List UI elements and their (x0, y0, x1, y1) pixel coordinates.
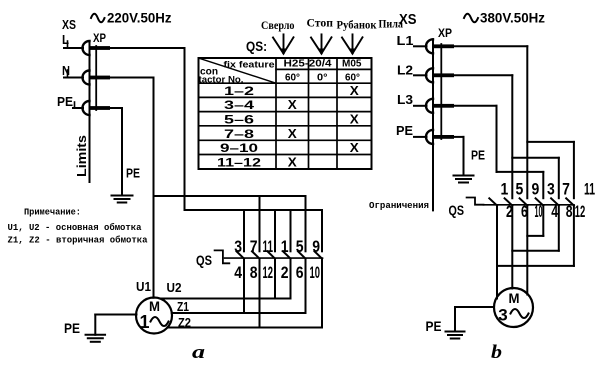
svg-text:M05: M05 (342, 58, 362, 70)
installation boundary line (Limits) (89, 41, 91, 182)
svg-text:X: X (288, 155, 298, 169)
svg-text:QS:: QS: (246, 38, 267, 54)
table header split line (276, 68, 372, 70)
plug XP pin L3 (diagram b) (433, 104, 454, 108)
wire L2 to socket (414, 74, 427, 76)
svg-text:9–10: 9–10 (220, 141, 258, 155)
contact bottom wire pin 2 (496, 206, 498, 299)
contact 1-2 top wire (pin 1) (290, 210, 292, 251)
wire L3 from plug (454, 105, 497, 107)
svg-text:8: 8 (566, 202, 573, 221)
svg-text:1: 1 (501, 179, 509, 198)
installation boundary line (Ogranicheniya) (432, 39, 434, 210)
wire L1 to socket (414, 45, 427, 47)
wire L1 drop to contact 5 (526, 46, 528, 198)
wire PE to socket (414, 136, 427, 138)
svg-text:1: 1 (281, 237, 289, 256)
contact blade (pair 2) diagram b (489, 198, 497, 205)
ground (motor M2 PE) (446, 332, 465, 339)
socket XS contact L3 (diagram b) (426, 99, 433, 113)
svg-text:QS: QS (449, 203, 465, 218)
svg-text:U1: U1 (136, 279, 151, 294)
wire contact 9 top drop (542, 172, 544, 198)
svg-text:3–4: 3–4 (224, 98, 254, 112)
contact 5-6 blade (298, 251, 306, 258)
contact bottom wire pin 4 (542, 206, 544, 236)
contact 11-12 top wire (pin 11) (274, 210, 276, 251)
svg-text:3: 3 (498, 306, 507, 325)
socket XS contact L2 (diagram b) (426, 68, 433, 82)
wire L2 branch to contact 3 (512, 157, 559, 159)
svg-text:PE: PE (57, 94, 73, 109)
svg-text:Z2: Z2 (178, 315, 191, 330)
svg-text:tactor No.: tactor No. (199, 75, 244, 85)
wire PE vertical to ground (diagram b) (463, 137, 465, 176)
wire N from plug to drop (110, 77, 154, 79)
contact bottom wire pin 10 (526, 206, 528, 295)
wire L3 branch to contact 9 (497, 171, 544, 173)
wire bridge contacts 6-8 (512, 250, 559, 252)
wire motor M2 PE (455, 306, 494, 308)
socket XS contact L (83, 41, 90, 55)
svg-text:X: X (288, 127, 298, 141)
wire L2 drop to contact 1 (511, 75, 513, 198)
svg-text:1–2: 1–2 (224, 84, 254, 98)
svg-text:Z1: Z1 (177, 299, 189, 314)
wire motor M1 PE (95, 314, 136, 316)
contact 3-4 bottom wire (pin 4) (243, 259, 245, 313)
contact 1-2 bottom wire (pin 2) (290, 259, 292, 299)
svg-text:XS: XS (62, 17, 76, 32)
svg-text:PE: PE (64, 320, 80, 336)
svg-text:Сверло: Сверло (261, 18, 295, 32)
svg-text:11: 11 (263, 237, 274, 256)
contact blade (pair 10) diagram b (520, 198, 528, 205)
wire Z2 (motor to contacts 8,10) (167, 327, 322, 329)
wire N to socket (64, 77, 83, 79)
contact 11-12 blade (268, 251, 276, 258)
wire L label tick (67, 41, 69, 48)
contact 9-10 blade (315, 251, 323, 258)
QS position arrow at x=352.5 (342, 34, 363, 55)
contact 3-4 top wire (pin 3) (243, 210, 245, 251)
svg-text:U2: U2 (167, 280, 182, 295)
wire N label tick (67, 70, 69, 78)
switch QS linkage bar (225, 257, 323, 259)
plug XP pin L2 (diagram b) (433, 73, 454, 77)
wire PE label tick (74, 102, 76, 108)
contactor table frame (199, 58, 372, 169)
svg-text:3: 3 (234, 237, 242, 256)
switch QS lever (diagram b) (467, 198, 484, 205)
svg-text:X: X (350, 84, 360, 98)
svg-text:X: X (288, 98, 298, 112)
motor M2 (3~ motor, diagram b) (494, 288, 533, 327)
svg-text:9: 9 (532, 179, 540, 198)
svg-text:2: 2 (281, 263, 289, 282)
wire L3 drop (496, 106, 498, 172)
contact blade (pair 4) diagram b (536, 198, 544, 205)
wire L1 branch to contact 7 (527, 141, 574, 143)
svg-text:220V.50Hz: 220V.50Hz (107, 11, 172, 26)
svg-text:7–8: 7–8 (224, 127, 254, 141)
svg-text:H25-20/4: H25-20/4 (284, 58, 332, 70)
svg-text:X: X (350, 141, 360, 155)
contact 3-4 blade (237, 251, 245, 258)
switch QS lever (215, 250, 230, 263)
contact 7-8 top wire (pin 7) (259, 196, 261, 251)
contact 11-12 bottom wire (pin 12) (274, 259, 276, 299)
contact 5-6 top wire (pin 5) (305, 196, 307, 251)
motor M1 (1~ motor, diagram a) (136, 298, 172, 334)
boundary second line through plug pins (95, 46, 97, 110)
svg-text:380V.50Hz: 380V.50Hz (480, 11, 545, 26)
table header diagonal (199, 58, 277, 83)
svg-text:Limits: Limits (74, 135, 89, 177)
title ~220V.50Hz (91, 14, 105, 23)
contact blade (pair 6) diagram b (505, 198, 513, 205)
svg-text:5: 5 (296, 237, 304, 256)
svg-text:L2: L2 (397, 63, 413, 78)
svg-text:5: 5 (516, 179, 524, 198)
wire bridge contacts 2-12 (497, 265, 574, 267)
svg-text:4: 4 (551, 202, 558, 221)
svg-text:Ограничения: Ограничения (369, 201, 429, 211)
table column lines (275, 58, 277, 169)
ground (PE of plug XP, diagram a) (112, 196, 133, 203)
svg-text:fix feature: fix feature (224, 60, 275, 70)
wire L1 from plug (454, 45, 527, 47)
switch QS linkage bar (diagram b) (484, 204, 575, 206)
svg-text:N: N (62, 63, 70, 78)
boundary second line through plug pins (diagram b) (440, 44, 442, 139)
contact bottom wire pin 8 (558, 206, 560, 251)
svg-text:60°: 60° (285, 72, 300, 84)
contact blade (pair 8) diagram b (551, 198, 559, 205)
svg-text:6: 6 (296, 263, 304, 282)
socket XS contact PE (diagram b) (426, 130, 433, 144)
svg-text:7: 7 (562, 179, 570, 198)
svg-text:7: 7 (250, 237, 258, 256)
svg-text:1: 1 (139, 312, 149, 332)
svg-text:12: 12 (575, 202, 586, 221)
svg-text:8: 8 (250, 263, 258, 282)
svg-text:6: 6 (521, 202, 528, 221)
svg-text:60°: 60° (345, 72, 360, 84)
contact 7-8 blade (252, 251, 260, 258)
QS position arrow at x=321.5 (311, 34, 332, 55)
ground (motor M1 PE) (86, 335, 106, 342)
wire PE plug to ground drop (diagram b) (454, 136, 464, 138)
svg-text:Рубанок: Рубанок (337, 17, 377, 31)
contact blade (pair 12) diagram b (566, 198, 574, 205)
svg-text:U1, U2 - основная обмотка: U1, U2 - основная обмотка (8, 222, 143, 233)
svg-text:XP: XP (93, 31, 106, 45)
socket XS contact PE (83, 101, 90, 115)
svg-text:L3: L3 (397, 92, 413, 107)
contact 9-10 bottom wire (pin 10) (321, 259, 323, 328)
wire L3 to socket (414, 105, 427, 107)
contact 1-2 blade (283, 251, 291, 258)
svg-text:0°: 0° (317, 72, 328, 84)
svg-text:12: 12 (263, 263, 274, 282)
svg-text:L1: L1 (397, 33, 414, 48)
wire L from plug to drop (110, 47, 185, 49)
svg-text:a: a (192, 342, 206, 363)
wire contact 3 top drop (558, 158, 560, 198)
svg-text:Примечание:: Примечание: (24, 207, 81, 218)
plug XP pin N (90, 76, 111, 80)
wire PE to socket (73, 107, 83, 109)
contact bottom wire pin 12 (573, 206, 575, 266)
contact 9-10 top wire (pin 9) (321, 210, 323, 251)
svg-text:Z1, Z2 - вторичная обмотка: Z1, Z2 - вторичная обмотка (8, 235, 149, 246)
svg-text:X: X (350, 112, 360, 126)
wire Z1 (motor to contacts 4,6) (172, 312, 306, 314)
ground (PE of plug XP, diagram b) (454, 176, 474, 183)
svg-text:QS: QS (196, 253, 212, 268)
svg-text:M: M (509, 290, 520, 306)
plug XP pin L1 (diagram b) (433, 44, 454, 48)
wire PE vertical to ground (121, 108, 123, 196)
wire PE plug to ground drop (110, 107, 122, 109)
contact 7-8 bottom wire (pin 8) (259, 259, 261, 328)
QS position arrow at x=283.5 (273, 34, 294, 55)
svg-text:b: b (491, 342, 502, 363)
svg-text:5–6: 5–6 (224, 112, 254, 126)
wire L to socket (64, 47, 83, 49)
wire U2 (motor to contacts 12,2) (161, 298, 291, 300)
wire N vertical drop / motor U1 feed (153, 78, 155, 298)
svg-text:PE: PE (471, 148, 485, 163)
title ~380V.50Hz (464, 14, 478, 23)
svg-text:PE: PE (426, 318, 442, 334)
plug XP pin PE (diagram b) (433, 135, 454, 139)
table row lines (199, 82, 372, 84)
svg-text:PE: PE (126, 166, 140, 181)
svg-text:M: M (149, 298, 160, 314)
svg-text:3: 3 (547, 179, 555, 198)
wire L vertical drop (184, 48, 186, 210)
svg-text:10: 10 (535, 202, 543, 221)
plug XP pin PE (90, 106, 111, 110)
wire L2 from plug (454, 74, 512, 76)
svg-text:10: 10 (310, 263, 321, 282)
wire bus H2 (L feed to contacts 3,11,1,9) (185, 209, 323, 211)
contact bottom wire pin 6 (511, 206, 513, 289)
svg-text:PE: PE (396, 123, 413, 138)
svg-text:XS: XS (399, 11, 417, 28)
socket XS contact N (83, 71, 90, 85)
svg-text:XP: XP (438, 26, 452, 40)
wire motor PE drop (94, 315, 96, 335)
svg-text:9: 9 (312, 237, 320, 256)
wire motor PE drop (diagram b) (454, 307, 456, 332)
socket XS contact L1 (diagram b) (426, 39, 433, 53)
svg-text:11: 11 (584, 179, 595, 198)
wire bridge contacts 10-4 (527, 235, 543, 237)
svg-text:2: 2 (506, 202, 513, 221)
wire contact 7 top drop (573, 142, 575, 198)
plug XP pin L (90, 46, 111, 50)
wire bus H1 (N feed to contacts 7,5) (154, 195, 306, 197)
svg-text:4: 4 (234, 263, 242, 282)
contact 5-6 bottom wire (pin 6) (305, 259, 307, 313)
svg-text:11–12: 11–12 (217, 155, 261, 169)
svg-text:Стоп: Стоп (307, 16, 334, 30)
